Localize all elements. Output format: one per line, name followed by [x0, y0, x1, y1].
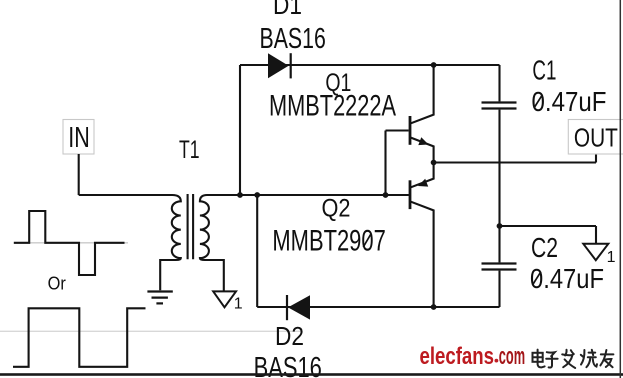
transformer T1 primary winding	[79, 195, 181, 290]
svg-text:1: 1	[607, 249, 616, 266]
slashed zero MMBT2907	[363, 234, 371, 247]
transformer T1 secondary winding	[200, 195, 409, 291]
ground	[147, 292, 172, 304]
svg-text:Q2: Q2	[322, 195, 351, 223]
wire OUT	[434, 154, 596, 163]
svg-text:MMBT2222A: MMBT2222A	[269, 90, 396, 123]
wire top loop left vertical	[239, 65, 241, 195]
svg-text:0.47uF: 0.47uF	[530, 263, 604, 294]
slashed zero C2 value	[533, 272, 541, 285]
transistor Q2	[410, 163, 434, 308]
node Q1 base branch	[383, 192, 389, 198]
wire bottom loop left vertical	[256, 195, 258, 307]
node C1-C2 junction	[497, 223, 503, 229]
svg-text:0.47uF: 0.47uF	[532, 86, 607, 117]
diode D1	[268, 53, 291, 78]
bottom border line	[0, 373, 623, 376]
svg-text:elecfans: elecfans	[420, 343, 495, 370]
capacitor C2	[482, 226, 517, 307]
right border line	[619, 0, 621, 378]
diode D2	[287, 295, 310, 320]
waveform bipolar pulse	[14, 211, 125, 275]
node emitter junction	[431, 160, 437, 166]
capacitor C1	[482, 65, 517, 226]
wire IN lead	[78, 154, 80, 195]
slashed zero C1 value	[534, 95, 542, 108]
port OUT box	[568, 120, 623, 155]
svg-text:com: com	[499, 343, 525, 370]
svg-text:D2: D2	[275, 321, 304, 351]
svg-text:D1: D1	[273, 0, 302, 20]
svg-text:IN: IN	[68, 122, 90, 154]
svg-text:C2: C2	[531, 232, 558, 263]
watermark elecfans.com	[420, 343, 526, 370]
node D1 branch	[237, 192, 243, 198]
node Q2 collector	[431, 304, 437, 310]
port IN box	[63, 120, 94, 155]
supply marker 1 at transformer	[213, 291, 243, 312]
waveform square wave	[13, 308, 146, 367]
svg-text:OUT: OUT	[574, 122, 618, 152]
svg-text:T1: T1	[179, 136, 200, 164]
wire to supply marker	[500, 226, 597, 243]
wire top rail	[240, 64, 500, 66]
svg-text:C1: C1	[532, 55, 556, 86]
transistor Q1	[410, 65, 434, 163]
supply marker 1 right	[583, 244, 615, 266]
node Q1 collector	[431, 62, 437, 68]
svg-text:MMBT2907: MMBT2907	[272, 225, 385, 258]
node D2 branch	[254, 192, 260, 198]
svg-text:BAS16: BAS16	[260, 23, 326, 55]
waveform 2 reference line	[0, 330, 302, 332]
transformer T1 core	[188, 194, 194, 259]
svg-text:Or: Or	[48, 273, 66, 294]
watermark chinese characters	[533, 350, 614, 368]
wire bottom rail	[257, 306, 499, 308]
waveform 1 reference line	[28, 242, 128, 244]
svg-text:1: 1	[234, 296, 243, 313]
wire Q1 base tap	[386, 131, 409, 196]
